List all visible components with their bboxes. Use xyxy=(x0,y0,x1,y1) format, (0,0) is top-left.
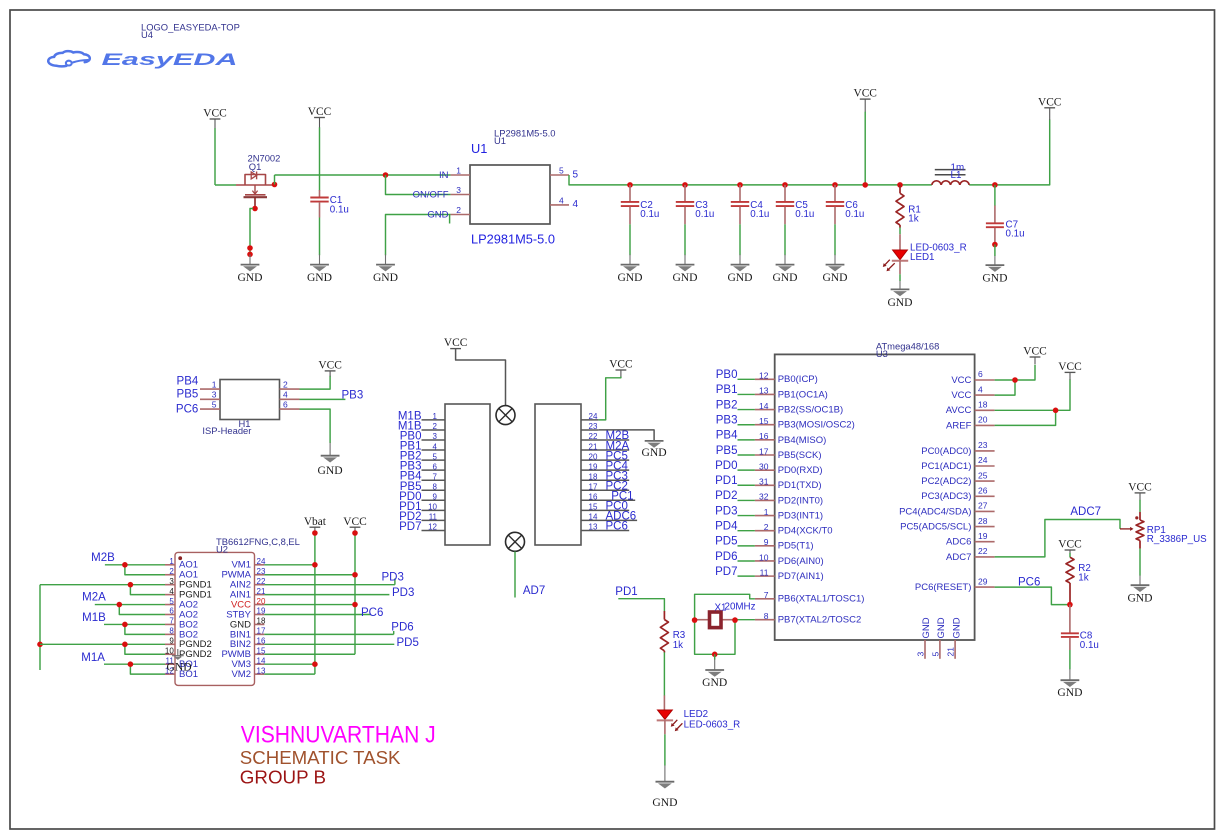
pin number 1 xyxy=(456,166,461,176)
label C5 value 0.1u xyxy=(795,209,814,220)
svg-text:LP2981M5-5.0: LP2981M5-5.0 xyxy=(471,232,555,247)
inductor L1 xyxy=(932,170,969,185)
pin1 marker U2 xyxy=(178,556,182,560)
pin name PC4(ADC4/SDA) xyxy=(899,506,971,517)
junction M1B xyxy=(122,622,128,628)
svg-text:5: 5 xyxy=(433,452,438,461)
svg-text:24: 24 xyxy=(978,455,988,465)
svg-text:1: 1 xyxy=(169,557,174,566)
logo label LOGO_EASYEDA-TOP xyxy=(141,22,240,33)
svg-text:M1B: M1B xyxy=(82,612,106,624)
pin name AIN2 xyxy=(230,580,251,591)
label H1 xyxy=(239,418,251,429)
svg-text:GND: GND xyxy=(307,271,332,284)
pin U3 12 xyxy=(755,378,775,380)
ground GND (U1) xyxy=(373,255,398,284)
svg-text:2: 2 xyxy=(433,422,438,431)
svg-text:15: 15 xyxy=(589,503,598,512)
wire C3 to GND xyxy=(684,224,686,255)
svg-text:PC2(ADC2): PC2(ADC2) xyxy=(921,476,971,487)
svg-text:20MHz: 20MHz xyxy=(725,601,756,612)
net label PC6 (H1) xyxy=(176,403,198,415)
svg-text:9: 9 xyxy=(433,493,438,502)
wire PGND vertical left xyxy=(39,585,41,670)
svg-text:GND: GND xyxy=(822,271,847,284)
pin U3 6 VCC xyxy=(975,379,995,381)
svg-text:PC0(ADC0): PC0(ADC0) xyxy=(921,446,971,457)
pin name AIN1 xyxy=(230,590,251,601)
pin name BIN2 xyxy=(230,639,251,650)
pin number 14 (conn) xyxy=(589,513,598,522)
svg-text:GND: GND xyxy=(652,796,677,809)
label U1 small xyxy=(494,135,506,146)
wire/pin 14 right connector xyxy=(581,519,637,521)
svg-text:LED-0603_R: LED-0603_R xyxy=(684,720,741,731)
label R3 value 1k xyxy=(673,640,683,651)
svg-text:8: 8 xyxy=(169,627,174,636)
net label PD4 (U3) xyxy=(715,521,738,533)
svg-text:PB0: PB0 xyxy=(716,369,738,381)
transistor Q1 2N7002 xyxy=(236,172,275,209)
svg-text:PB3(MOSI/OSC2): PB3(MOSI/OSC2) xyxy=(778,420,855,431)
pin number 22 (conn) xyxy=(589,432,598,441)
pin U2 2 xyxy=(165,574,175,576)
wire PGND1 to U2 pins 3 4 xyxy=(40,585,165,595)
svg-text:2: 2 xyxy=(169,567,174,576)
pin number 17 (U2) xyxy=(257,627,266,636)
pin name BO1 xyxy=(179,659,198,670)
svg-text:PD7(AIN1): PD7(AIN1) xyxy=(778,571,824,582)
svg-text:VCC: VCC xyxy=(951,390,971,401)
junction Q1 drain xyxy=(272,182,278,188)
pin name PD2(INT0) xyxy=(778,495,823,506)
wire/pin 1 left connector xyxy=(422,419,446,421)
pin name AREF xyxy=(946,420,972,431)
svg-text:GND: GND xyxy=(318,464,343,477)
pin name PD3(INT1) xyxy=(778,510,823,521)
potentiometer RP1 xyxy=(1120,512,1144,549)
pin name PC3(ADC3) xyxy=(921,491,971,502)
wire PB6 loop xyxy=(695,594,755,620)
svg-text:U1: U1 xyxy=(494,135,506,146)
label R3 xyxy=(673,630,686,641)
power flag VCC (H1) xyxy=(318,360,341,377)
svg-text:17: 17 xyxy=(589,482,598,491)
pin U2 19 xyxy=(255,614,265,616)
svg-text:GND: GND xyxy=(1127,592,1152,605)
pin number 10 (U2) xyxy=(165,646,174,655)
svg-text:PD1(TXD): PD1(TXD) xyxy=(778,480,822,491)
pin number 23 (U3) xyxy=(978,440,988,450)
wire M2B to U2 pins 1 2 xyxy=(105,565,165,575)
svg-text:VCC: VCC xyxy=(444,337,467,349)
ground GND (LED1) xyxy=(887,281,912,309)
junction rail at C5 xyxy=(782,182,788,188)
pin U2 6 xyxy=(165,614,175,616)
pin number 10 (U3) xyxy=(759,552,769,562)
svg-text:Q1: Q1 xyxy=(249,161,262,172)
ground GND (C6) xyxy=(822,255,847,284)
pin U2 22 xyxy=(255,584,265,586)
wire R3 to LED2 xyxy=(663,652,665,695)
label X1 xyxy=(715,603,727,614)
net label PB3 (U3) xyxy=(716,415,738,427)
pin name BIN1 xyxy=(230,629,251,640)
svg-text:7: 7 xyxy=(764,590,769,600)
title text SCHEMATIC TASK xyxy=(240,748,401,768)
junction rail at VCC mid xyxy=(862,182,868,188)
junction M2B xyxy=(122,562,128,568)
svg-text:1k: 1k xyxy=(673,640,683,651)
pin name GND vertical (pin 21) xyxy=(951,617,962,638)
power flag VCC (U3 AVCC) xyxy=(1058,361,1081,380)
pin U2 3 xyxy=(165,584,175,586)
wire PD0 to U3 xyxy=(738,469,755,471)
svg-text:18: 18 xyxy=(589,472,598,481)
pin number 14 (U2) xyxy=(257,656,266,665)
wire C8 to GND xyxy=(1069,650,1071,669)
pin U3 7 PB6 xyxy=(755,598,775,600)
svg-text:16: 16 xyxy=(589,493,598,502)
svg-text:10: 10 xyxy=(759,552,769,562)
label C4 xyxy=(750,200,763,211)
pin U3 9 xyxy=(755,545,775,547)
net label PB5 (H1) xyxy=(177,389,199,401)
wire/pin 20 right connector xyxy=(581,459,629,461)
svg-text:3: 3 xyxy=(212,390,217,400)
wire PGND2 to U2 pins 9 10 xyxy=(40,644,165,654)
power flag VCC (C1) xyxy=(308,106,331,128)
pin name PGND1 xyxy=(179,580,212,591)
junction Vbat VM3 xyxy=(312,661,318,667)
pin number 3 vertical xyxy=(916,652,926,657)
svg-text:U3: U3 xyxy=(876,348,888,359)
svg-text:GND: GND xyxy=(642,446,667,459)
svg-text:VCC: VCC xyxy=(951,375,971,386)
pin name PC0(ADC0) xyxy=(921,446,971,457)
svg-text:VCC: VCC xyxy=(1038,96,1061,108)
wire AIN2 to PD3 xyxy=(264,579,395,585)
pin number 14 (U3) xyxy=(759,401,769,411)
title text GROUP B xyxy=(240,767,326,788)
svg-text:PB6(XTAL1/TOSC1): PB6(XTAL1/TOSC1) xyxy=(778,594,865,605)
net label PB1 (conn pin 4) xyxy=(400,441,422,453)
pin number 24 (U2) xyxy=(257,557,266,566)
net label PC5 (conn pin 20) xyxy=(606,450,628,462)
wire/pin 12 left connector xyxy=(422,529,446,531)
power flag VCC (RP1) xyxy=(1128,482,1151,501)
pin U2 20 xyxy=(255,604,265,606)
label C7 value 0.1u xyxy=(1006,229,1025,240)
label LP2981M5-5.0 big xyxy=(471,232,555,247)
pin numbers H1 right xyxy=(283,379,288,409)
net label PB0 (conn pin 3) xyxy=(400,431,422,443)
svg-text:3: 3 xyxy=(456,185,461,195)
pin U3 32 xyxy=(755,499,775,501)
svg-text:18: 18 xyxy=(257,617,266,626)
wire Q1 drain to rail xyxy=(274,175,276,185)
label Q1 xyxy=(249,161,262,172)
ground GND (C5) xyxy=(772,255,797,284)
resistor R1 xyxy=(896,185,904,228)
svg-text:11: 11 xyxy=(429,513,438,522)
wire C5 to GND xyxy=(784,224,786,255)
power flag Vbat xyxy=(304,516,327,535)
junction Vbat stem xyxy=(312,530,318,536)
svg-text:8: 8 xyxy=(764,611,769,621)
wire VCC to conn pin24 xyxy=(599,377,621,420)
junction PGND1 xyxy=(128,582,134,588)
resistor R2 xyxy=(1066,557,1074,604)
svg-text:PD4: PD4 xyxy=(715,521,738,533)
svg-text:26: 26 xyxy=(978,486,988,496)
svg-text:VCC: VCC xyxy=(1023,346,1046,358)
pin number 30 (U3) xyxy=(759,461,769,471)
svg-text:25: 25 xyxy=(978,470,988,480)
svg-text:SCHEMATIC TASK: SCHEMATIC TASK xyxy=(240,748,401,768)
pin name AO1 xyxy=(179,560,198,571)
pin number 26 (U3) xyxy=(978,486,988,496)
ground GND (C7) xyxy=(982,256,1007,284)
pin number 9 (conn) xyxy=(433,493,438,502)
label ISP-Header xyxy=(202,425,251,436)
pin number 7 (U3) xyxy=(764,590,769,600)
pin number 3 xyxy=(456,185,461,195)
svg-text:VCC: VCC xyxy=(343,516,366,528)
svg-text:1: 1 xyxy=(212,379,217,389)
power flag VCC (conn pin24) xyxy=(609,359,632,377)
label C6 value 0.1u xyxy=(845,209,864,220)
svg-text:PB5(SCK): PB5(SCK) xyxy=(778,450,822,461)
pin U3 26 PC3(ADC3) xyxy=(975,495,995,497)
svg-text:21: 21 xyxy=(946,647,956,657)
pin number 2 (U3) xyxy=(764,522,769,532)
pin name AO2 xyxy=(179,599,198,610)
pin U3 17 xyxy=(755,454,775,456)
ground GND (H1) xyxy=(318,443,343,477)
pin U2 16 xyxy=(255,643,265,645)
pin number 13 (conn) xyxy=(589,523,598,532)
label LED-0603_R (LED1) xyxy=(910,243,967,254)
svg-text:ADC7: ADC7 xyxy=(1070,506,1101,518)
svg-text:EasyEDA: EasyEDA xyxy=(102,51,238,69)
svg-text:PD3: PD3 xyxy=(392,587,414,599)
svg-text:GND: GND xyxy=(427,209,448,220)
led LED2 xyxy=(657,695,673,720)
svg-text:10: 10 xyxy=(428,503,437,512)
pin U3 25 PC2(ADC2) xyxy=(975,480,995,482)
wire VCC to C1 xyxy=(319,127,321,190)
pin U2 13 xyxy=(255,673,265,675)
pin U3 16 xyxy=(755,439,775,441)
pin number 21 (U2) xyxy=(257,587,266,596)
pin number 3 (U2) xyxy=(169,577,174,586)
wire PB3 to U3 xyxy=(738,424,755,426)
net label PD0 (conn pin 9) xyxy=(399,491,421,503)
net label PC4 (conn pin 19) xyxy=(606,460,629,472)
svg-text:VM2: VM2 xyxy=(231,669,251,680)
svg-text:PB4: PB4 xyxy=(716,430,738,442)
pin name PB5(SCK) xyxy=(778,450,822,461)
wire/pin 11 left connector xyxy=(422,519,446,521)
wire rail to C7 xyxy=(994,185,996,206)
svg-text:VISHNUVARTHAN J: VISHNUVARTHAN J xyxy=(241,721,436,748)
pin name PD6(AIN0) xyxy=(778,556,824,567)
pin number 7 (U2) xyxy=(169,617,174,626)
net label M1B (conn pin 1) xyxy=(398,410,422,422)
pin number 23 (U2) xyxy=(257,567,266,576)
wire LED1 to GND xyxy=(899,261,901,281)
pin U3 11 xyxy=(755,575,775,577)
power flag VCC (R2) xyxy=(1058,539,1081,554)
pin name GND vertical (pin 3) xyxy=(921,617,932,638)
label LP2981M5-5.0 small xyxy=(494,128,556,139)
pin number 20 (U2) xyxy=(257,597,266,606)
net label PB2 (U3) xyxy=(716,399,738,411)
pin number 1 (U3) xyxy=(764,507,769,517)
label C1 xyxy=(330,195,343,206)
pin number 21 (conn) xyxy=(589,442,598,451)
net label PD6 xyxy=(391,621,413,633)
svg-text:1k: 1k xyxy=(1078,572,1088,583)
pin number 4 (U3) xyxy=(978,384,983,394)
pin number 19 (conn) xyxy=(589,462,598,471)
wire bottom circle to AD7 xyxy=(514,552,516,598)
svg-text:PC3(ADC3): PC3(ADC3) xyxy=(921,491,971,502)
wire PD3 to U3 xyxy=(738,515,755,517)
net label M2B (conn pin 22) xyxy=(606,430,630,442)
junction rail at C3 xyxy=(682,182,688,188)
pin name PB4(MISO) xyxy=(778,435,827,446)
wire/pin 21 right connector xyxy=(581,449,629,451)
svg-text:PD3: PD3 xyxy=(382,572,404,584)
pin name PC6(RESET) xyxy=(915,582,971,593)
wire/pin 2 left connector xyxy=(422,429,446,431)
svg-text:LOGO_EASYEDA-TOP: LOGO_EASYEDA-TOP xyxy=(141,22,240,33)
pin number 5 (U2) xyxy=(169,597,174,606)
junction PGND2 xyxy=(122,642,128,648)
wire/pin 3 left connector xyxy=(422,439,446,441)
resistor R3 xyxy=(660,611,668,653)
wire/pin 8 left connector xyxy=(422,489,446,491)
svg-text:PD7: PD7 xyxy=(715,566,737,578)
wire M2A to U2 pins 5 6 xyxy=(95,605,165,615)
svg-text:PB5: PB5 xyxy=(177,389,199,401)
label U2 xyxy=(216,544,228,555)
wire/pin 18 right connector xyxy=(581,479,629,481)
wire VCC to Q1 gate xyxy=(215,128,236,185)
svg-text:PD1: PD1 xyxy=(715,475,737,487)
svg-text:AVCC: AVCC xyxy=(946,405,972,416)
svg-text:7: 7 xyxy=(169,617,174,626)
wire PD2 to U3 xyxy=(738,499,755,501)
pin name VCC xyxy=(231,599,251,610)
svg-text:VCC: VCC xyxy=(318,360,341,372)
led LED1 light arrows xyxy=(883,260,895,272)
net label M2A xyxy=(82,592,106,604)
wire BIN1 to PD6 xyxy=(264,631,393,634)
label C8 xyxy=(1080,631,1093,642)
svg-text:M2A: M2A xyxy=(82,592,106,604)
svg-text:IN: IN xyxy=(439,170,449,181)
junction rail at R1 xyxy=(897,182,903,188)
pin U2 7 xyxy=(165,623,175,625)
pin number 12 (U3) xyxy=(759,371,769,381)
net label PD1 (bottom) xyxy=(615,586,637,598)
svg-text:3: 3 xyxy=(169,577,174,586)
pin number 24 (U3) xyxy=(978,455,988,465)
svg-text:24: 24 xyxy=(589,412,598,421)
wire M1B to U2 pins 7 8 xyxy=(104,624,165,634)
wire PD1 to U3 xyxy=(738,484,755,486)
pin U2 15 xyxy=(255,653,265,655)
wire C1 to GND xyxy=(319,218,321,256)
mounting circle bottom xyxy=(506,532,525,551)
wire PD1 to R3 xyxy=(618,599,664,612)
svg-text:21: 21 xyxy=(589,442,598,451)
label R1 xyxy=(908,205,921,216)
pin U3 31 xyxy=(755,484,775,486)
wire VCC mid to rail xyxy=(864,112,866,185)
pin name PGND1 xyxy=(179,590,212,601)
junction PGND vertical xyxy=(37,642,43,648)
net label PB1 (U3) xyxy=(716,384,738,396)
svg-text:6: 6 xyxy=(169,607,174,616)
svg-text:PB4(MISO): PB4(MISO) xyxy=(778,435,827,446)
pin number 12 (conn) xyxy=(428,523,437,532)
pin U3 15 xyxy=(755,424,775,426)
wire VCC to top circle xyxy=(456,349,506,406)
label TB6612FNG,C,8,EL xyxy=(216,536,300,547)
label RP1 value R_3386P_US xyxy=(1147,534,1207,545)
wire PB7 to crystal xyxy=(735,619,755,621)
power flag VCC (rail right) xyxy=(1038,96,1061,120)
svg-text:1: 1 xyxy=(433,412,438,421)
net label PC6 (conn pin 13) xyxy=(606,521,628,533)
wire/pin 9 left connector xyxy=(422,499,446,501)
pin number 11 (U3) xyxy=(760,567,769,577)
svg-text:PB2(SS/OC1B): PB2(SS/OC1B) xyxy=(778,404,843,415)
pin name AO2 xyxy=(179,609,198,620)
pin number 11 (conn) xyxy=(429,513,438,522)
pin number 17 (U3) xyxy=(759,446,769,456)
junction rail at C2 xyxy=(627,182,633,188)
pin name PC5(ADC5/SCL) xyxy=(900,522,971,533)
pin number 20 (conn) xyxy=(589,452,598,461)
svg-text:PB3: PB3 xyxy=(342,389,364,401)
wire/pin 17 right connector xyxy=(581,489,629,491)
junction rail at C6 xyxy=(832,182,838,188)
wire PB2 to U3 xyxy=(738,409,755,411)
svg-text:GROUP B: GROUP B xyxy=(240,767,326,788)
pin U3 13 xyxy=(755,393,775,395)
pin U2 5 xyxy=(165,604,175,606)
pin U3 21 GND bottom xyxy=(954,640,956,659)
net label PC2 (conn pin 17) xyxy=(606,480,628,492)
svg-text:PB5: PB5 xyxy=(716,445,738,457)
net label PB3 xyxy=(342,389,364,401)
pin U3 24 PC1(ADC1) xyxy=(975,465,995,467)
net label M2A (conn pin 21) xyxy=(606,440,630,452)
pin name GND xyxy=(230,619,251,630)
svg-text:4: 4 xyxy=(573,199,579,210)
wire AIN1 to PD3 xyxy=(264,594,389,596)
svg-text:20: 20 xyxy=(589,452,598,461)
label L1 value 1m xyxy=(951,163,965,174)
junction M1A xyxy=(128,661,134,667)
svg-text:M2B: M2B xyxy=(91,552,115,564)
svg-text:PB2: PB2 xyxy=(716,399,738,411)
